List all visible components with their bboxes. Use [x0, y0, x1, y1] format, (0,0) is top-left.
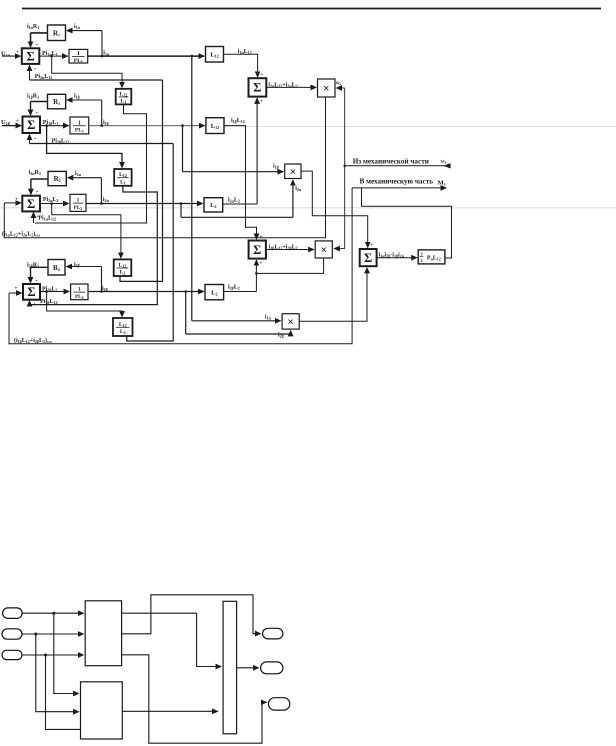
wire omega into M1 [337, 87, 345, 89]
terminal Out1 [263, 628, 283, 639]
svg-text:Pi2αL12: Pi2αL12 [35, 74, 53, 80]
svg-text:×: × [323, 83, 330, 95]
svg-text:В механическую часть: В механическую часть [360, 178, 434, 186]
wire i2b into P2 bottom [290, 331, 292, 334]
wire [101, 100, 103, 126]
wire R2 output [31, 178, 48, 180]
torque summer T1 [360, 249, 377, 266]
terminal In3 [2, 650, 22, 659]
wire EMF alpha feedback from multiplier M1 [4, 97, 325, 238]
faint scan streak [0, 125, 616, 127]
svg-text:i1βR1: i1βR1 [27, 94, 39, 100]
wire pi2bL12 up to S2 return [127, 144, 173, 342]
faint scan streak [0, 207, 616, 209]
svg-text:+: + [16, 118, 19, 124]
terminal Out2 [261, 662, 283, 674]
wire pi2aL12 return [30, 79, 163, 81]
wire to torque gain block [377, 257, 417, 259]
wire into summer S3 top [30, 179, 32, 194]
svg-text:i1α: i1α [265, 315, 272, 321]
wire pi2aL2 tap to L12/L2 [52, 204, 121, 258]
wire i2aL2 up to F1 bottom [256, 104, 258, 204]
wire i1a into P2 [192, 320, 281, 322]
wire omega bus [344, 88, 346, 249]
svg-text:i2βL2: i2βL2 [228, 285, 240, 291]
wire i1bL12 to flux summer F2 [224, 126, 257, 239]
svg-text:+: + [370, 242, 373, 248]
svg-text:L2: L2 [120, 270, 126, 276]
multiplier P1 [285, 164, 301, 179]
wire EMF input to S3 [4, 202, 21, 204]
wire In3 to block A [22, 654, 83, 656]
wire R1 output [31, 32, 48, 34]
gain block L2 (i2a) [204, 198, 223, 212]
wire In2 to block A [22, 633, 83, 635]
wire i1a down to product P2 [191, 56, 193, 321]
svg-text:×: × [290, 166, 297, 178]
wire into summer S4 top [30, 267, 32, 282]
wire into S1 bottom [29, 66, 31, 81]
summer S1 [22, 48, 40, 64]
svg-text:+: + [260, 72, 263, 78]
wire i2bL2 [224, 291, 257, 293]
wire Me to mechanical part [352, 187, 446, 189]
wire pi1bL12 to summer S4 [31, 186, 157, 305]
wire In1 to block B [54, 613, 79, 693]
wire arrow into F1 bottom [256, 98, 258, 104]
svg-text:Pi1βL12: Pi1βL12 [40, 299, 57, 305]
summer S3 [22, 196, 40, 212]
svg-text:Σ: Σ [27, 118, 35, 132]
wire M2 bottom tie [256, 258, 323, 273]
svg-text:i2β: i2β [74, 262, 80, 268]
gain block L12 (i1a) [206, 47, 224, 63]
wire EMF beta feedback riser [9, 188, 352, 344]
svg-text:L1: L1 [120, 179, 126, 185]
terminal Out3 [268, 698, 289, 710]
wire into S3 bottom [33, 213, 35, 224]
svg-text:U1β: U1β [1, 119, 10, 126]
svg-text:i2αL2: i2αL2 [228, 198, 240, 204]
multiplier P2 [282, 314, 299, 329]
wire [100, 178, 102, 204]
svg-text:i1β: i1β [103, 120, 109, 126]
gain block L12/L2 (ch4) [113, 318, 133, 336]
block B [81, 682, 123, 739]
svg-text:i1αR1: i1αR1 [27, 24, 39, 30]
wire S2 to 1/pL1 [40, 125, 69, 127]
svg-text:×: × [320, 245, 327, 257]
wire P2 product to torque summer bottom [299, 268, 367, 321]
wire EMF input to S4 [9, 292, 22, 294]
wire into summer S2 top [30, 102, 32, 116]
wire In1 to block A [22, 612, 83, 614]
wire block A out1 to block C [122, 613, 221, 666]
svg-text:i2αR2: i2αR2 [29, 170, 41, 176]
terminal In1 [3, 608, 23, 619]
gain block L12/L1 (ch1) [116, 89, 132, 105]
wire R1 input from i1a [67, 30, 102, 32]
flux summer F1 [249, 78, 267, 96]
wire into summer top [30, 33, 32, 47]
wire i2a into P1 bottom [292, 180, 294, 217]
resistor block R1 [48, 25, 66, 41]
wire i2a across [181, 216, 293, 218]
svg-text:+: + [16, 50, 19, 56]
svg-text:Pi1αL12: Pi1αL12 [38, 216, 56, 222]
svg-text:Σ: Σ [26, 49, 34, 63]
wire In3 to block B [46, 655, 81, 729]
wire [33, 213, 35, 223]
wire P1 product to torque summer [301, 171, 368, 247]
wire i2a current line [86, 203, 203, 205]
gain block L12/L1 (ch2) [114, 169, 131, 186]
wire i1aL12 to flux summer F1 [224, 54, 258, 77]
wire S3 to 1/pL2 [40, 203, 69, 205]
wire i2b across [186, 333, 291, 335]
multiplier M2 [315, 241, 332, 258]
svg-text:ωэ: ωэ [441, 159, 447, 165]
svg-text:L2: L2 [120, 329, 126, 335]
svg-text:+: + [15, 197, 18, 203]
svg-text:i2α: i2α [295, 186, 302, 192]
wire R2 input from i2a [68, 177, 102, 179]
wire S4 to 1/pL2 [40, 291, 69, 293]
svg-text:i2β: i2β [278, 332, 284, 338]
block A [85, 601, 121, 666]
resistor block R2 [48, 171, 66, 185]
svg-text:Pi2αL2: Pi2αL2 [43, 197, 59, 203]
svg-text:PL1: PL1 [75, 127, 84, 133]
wire i2a down [180, 204, 182, 218]
wire flux to multiplier M1 [266, 86, 316, 88]
svg-text:L2: L2 [210, 202, 216, 209]
page top rule [22, 8, 601, 10]
wire pi2bL2 tap to L12/L2 [47, 292, 122, 317]
wire torque output loop [362, 188, 452, 258]
svg-text:i1βL12: i1βL12 [231, 118, 245, 124]
gain block L12/L2 (ch3) [114, 259, 132, 276]
wire omega into M2 [334, 248, 344, 250]
wire block A out3 to Out3 [122, 655, 267, 743]
svg-text:i2α: i2α [103, 197, 110, 203]
svg-text:L1: L1 [121, 99, 127, 105]
integrator block 1/pL1 (ch1) [69, 49, 88, 64]
svg-text:PL2: PL2 [74, 206, 82, 211]
resistor block R2 (ch4) [48, 260, 65, 276]
wire pi1bL1 tap to L12/L1 [47, 126, 122, 168]
wire i1b current line [89, 125, 205, 127]
wire pi1aL1 tap to L12/L1 [52, 56, 122, 87]
svg-text:PnL12: PnL12 [427, 256, 441, 262]
svg-text:+: + [260, 99, 263, 105]
svg-text:Σ: Σ [27, 285, 35, 299]
svg-text:i1α: i1α [74, 24, 81, 30]
terminal In2 [2, 629, 22, 639]
wire R1b input from i1b [67, 99, 102, 101]
wire U1b input [2, 125, 21, 127]
svg-text:×: × [287, 317, 294, 329]
svg-text:(i1αL12+i2αL2)ωэ: (i1αL12+i2αL2)ωэ [2, 231, 40, 238]
integrator block 1/pL2 (ch4) [71, 284, 88, 300]
wire i1b into P1 [183, 171, 284, 173]
wire i2aL2 [223, 203, 257, 205]
svg-text:(i1βL12+i2βL2)ωэ: (i1βL12+i2βL2)ωэ [14, 337, 52, 344]
summer S4 [23, 284, 40, 300]
gain block L12 (i1b) [206, 118, 224, 134]
svg-text:i1β: i1β [74, 94, 80, 100]
svg-text:Σ: Σ [27, 197, 35, 211]
svg-text:L12: L12 [211, 123, 219, 130]
wire i2b down [185, 292, 187, 335]
svg-text:Σ: Σ [364, 251, 372, 265]
wire [101, 267, 103, 292]
svg-text:Mэ: Mэ [438, 180, 446, 187]
svg-text:L2: L2 [211, 289, 217, 296]
wire In2 to block B [36, 634, 79, 712]
integrator block 1/pL1 (ch2) [70, 117, 89, 134]
wire omega from mechanical part [345, 165, 449, 167]
svg-text:ωэ: ωэ [336, 81, 342, 86]
wire into F2 bottom [255, 260, 257, 291]
svg-text:Из механической части: Из механической части [353, 158, 429, 166]
svg-text:i1β: i1β [273, 164, 279, 170]
svg-text:+: + [259, 261, 262, 267]
svg-text:+: + [33, 302, 36, 308]
svg-text:+: + [36, 214, 39, 220]
torque gain block 3/2 PnL12 [418, 250, 445, 264]
integrator block 1/pL2 (ch3) [70, 194, 86, 211]
wire block B out to block C [122, 710, 217, 712]
resistor block R1 (ch2) [48, 94, 66, 109]
wire [101, 31, 103, 56]
block C [223, 601, 237, 734]
wire i1a current line [88, 55, 204, 57]
wire pi1aL12 to summer S3 [35, 104, 147, 223]
wire R1b output [31, 101, 48, 103]
gain block L2 (i2b) [205, 285, 224, 300]
wire block C out to Out2 [237, 667, 259, 669]
wire into S4 bottom [29, 301, 31, 305]
wire flux to multiplier M2 [266, 249, 314, 251]
svg-text:i2α: i2α [75, 171, 82, 177]
wire block A out2 to Out1 [122, 595, 261, 634]
multiplier M1 [318, 79, 336, 97]
svg-text:PL1: PL1 [74, 58, 83, 64]
wire into S2 bottom [29, 135, 31, 144]
svg-text:+: + [259, 234, 262, 240]
wire i2b current line [88, 291, 204, 293]
svg-text:Σ: Σ [253, 243, 261, 257]
wire U1a input [2, 55, 20, 57]
svg-text:Σ: Σ [253, 81, 261, 95]
flux summer F2 [249, 241, 266, 259]
svg-text:PL2: PL2 [75, 295, 83, 300]
svg-text:L12: L12 [210, 52, 218, 59]
svg-text:+: + [14, 286, 17, 292]
wire pi2bL12 return [30, 143, 174, 145]
wire i1b down to product P1 [182, 126, 184, 172]
wire R2b output [31, 266, 49, 268]
wire R2b input from i2b [67, 266, 102, 268]
wire pi2aL12 up to S1 return [120, 80, 163, 281]
summer S2 [23, 117, 41, 134]
wire S1 to 1/pL1 [39, 55, 67, 57]
